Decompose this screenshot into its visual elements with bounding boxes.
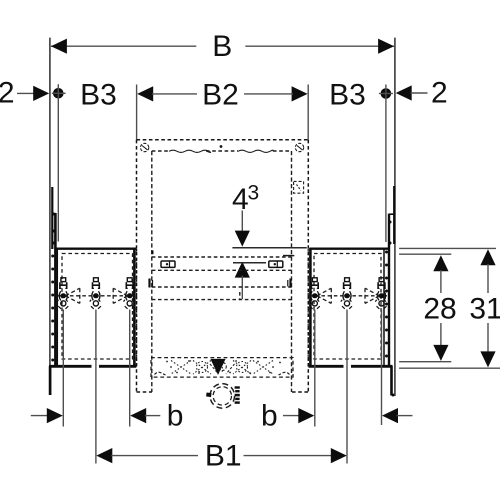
drain pipe clamp bolt [210,359,225,375]
svg-text:B3: B3 [80,78,117,111]
drain clamp screw right [235,386,240,404]
fixture clamp right panel middle [341,278,352,309]
svg-text:2: 2 [0,76,15,109]
dimension 2 right [396,76,448,109]
side bracket mark right [288,279,291,288]
svg-text:28: 28 [423,292,456,325]
right panel inner dashed rect [314,254,381,360]
adjustment triangle left B [113,288,127,303]
crossbar solid line top [232,247,306,249]
central element inner dashed edges [152,151,292,392]
svg-text:b: b [261,399,278,432]
right rail bracket jog [389,213,395,215]
dimension B2 [137,78,309,139]
squiggle lines on inner top edge [169,150,273,152]
right rail dots [385,221,395,397]
left rail dots [51,213,55,362]
svg-text:2: 2 [431,76,448,109]
right rail panel segment [388,214,390,367]
svg-text:B: B [212,30,232,63]
svg-text:3: 3 [248,182,260,205]
crossbar end tick right [283,255,294,257]
bottom band right hook [279,372,290,375]
left rail lower segment [49,366,52,395]
svg-text:B1: B1 [205,439,242,472]
b row: right outer arrow [382,408,413,423]
left rail panel segment [54,213,57,367]
side bracket mark left [150,279,153,288]
right panel right edge [383,249,385,366]
wall line left [49,38,51,395]
adjustment triangle left A [66,288,80,303]
left panel top edge [56,247,136,249]
left panel left edge [56,249,58,366]
dimension 31 [399,248,500,368]
b row: right label b + arrow [261,399,314,432]
left panel toothed right edge [133,248,136,367]
right rail lower segment [390,366,393,396]
fixture clamp left panel inner [124,278,135,309]
svg-text:B2: B2 [202,78,239,111]
dimension 2 left [0,76,49,109]
right panel axis dashed line [309,295,388,297]
svg-text:4: 4 [232,183,249,216]
left rail jog [52,213,56,215]
anchor dot right [379,85,393,243]
dimension 28 [399,254,457,362]
dot on top edge [220,145,223,148]
drain clamp hinge left [206,392,212,397]
band speckle dots [166,360,281,374]
anchor dot left [52,84,66,241]
adjustment triangle right A [317,288,331,303]
adjustment triangle right B [365,288,379,303]
rail clamp nut right [269,261,283,267]
drain pipe dashed circles [210,384,235,409]
fixture clamp left panel outer [57,278,68,309]
screw top-right [295,143,303,151]
fixture clamp right panel inner [309,278,320,309]
fitting dashed box right inner edge [294,181,304,193]
fixture extension lines [63,310,381,464]
b row: left inner arrow + label b [130,399,183,432]
left rail upper segment [51,187,53,249]
screw top-left [140,143,148,151]
right panel bottom edge [309,365,344,368]
left panel axis dashed line [58,295,137,297]
svg-text:B3: B3 [329,78,366,111]
dimension B [51,30,394,63]
dimension 4-3 [232,182,259,300]
svg-text:31: 31 [469,292,500,325]
dimension B1 [96,439,346,472]
bottom band left hook [155,372,166,375]
right panel top edge [310,247,389,249]
central element outer dashed rect [137,140,309,392]
crossbar solid line lower [233,262,266,264]
fixture clamp left panel middle [90,278,101,309]
right panel toothed left edge [309,248,312,367]
drain clamp dashed wings [210,364,235,374]
crossbar end tick left [151,251,153,255]
svg-text:b: b [167,399,184,432]
left panel bottom edge [49,365,92,368]
wall line right [394,38,396,396]
bottom band dashed rect [151,358,293,378]
band center small circle [218,361,226,373]
b row: left outer arrow [31,408,63,423]
bottom band X braces [171,361,273,375]
crossbar dashed horizontals [152,257,292,300]
rail clamp nut left [161,261,175,267]
fixture clamp right panel outer [375,278,386,309]
left panel inner dashed rect [62,254,133,360]
right rail upper segment [393,186,395,244]
